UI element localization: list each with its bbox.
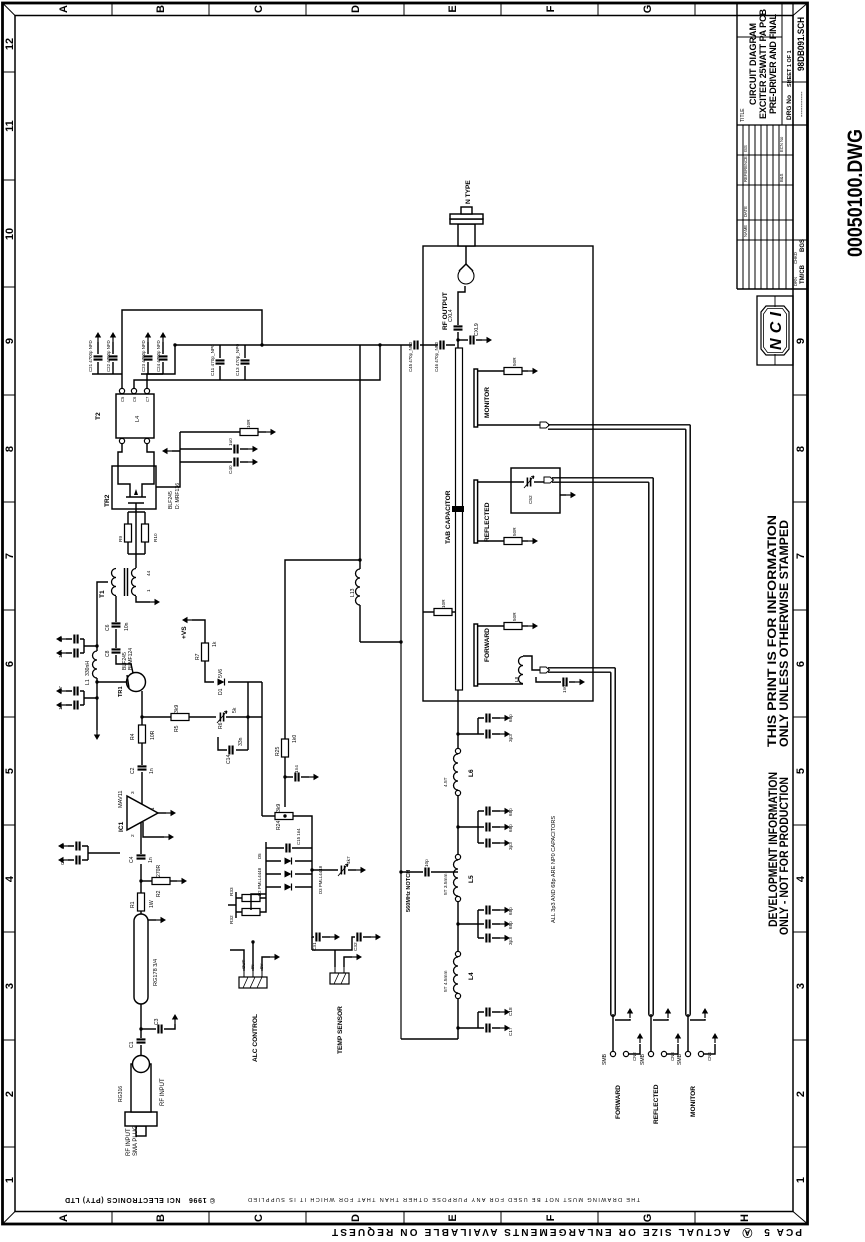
feedthrough caps C23 C24 4700p NFD (141, 342, 163, 374)
wire L6 into box (457, 690, 459, 748)
diode D5 PMLL4448 (266, 860, 312, 862)
svg-text:MONITOR: MONITOR (484, 387, 491, 418)
svg-text:270R: 270R (156, 865, 162, 877)
bias rail y262 (248, 682, 262, 816)
svg-text:3p3: 3p3 (508, 842, 513, 850)
title area dividers (737, 3, 807, 125)
svg-text:DRN: DRN (793, 277, 798, 286)
capacitor CXL4 (454, 326, 463, 329)
shunt caps C27 C28 C29 (456, 922, 459, 925)
svg-text:1k0: 1k0 (292, 735, 298, 743)
corner diagonal top-right (4, 4, 16, 16)
supply rail with arrow (96, 723, 98, 725)
node junctions on x897 (260, 343, 263, 346)
svg-text:10R: 10R (150, 730, 156, 740)
svg-text:ONLY - NOT FOR PRODUCTION: ONLY - NOT FOR PRODUCTION (777, 777, 791, 935)
node L5 pad (455, 896, 460, 901)
svg-text:2: 2 (4, 1091, 16, 1097)
svg-text:4u7: 4u7 (58, 686, 63, 694)
svg-text:68p: 68p (508, 808, 513, 816)
svg-text:C15 1n4: C15 1n4 (296, 828, 301, 845)
grid numbers top (4, 38, 16, 1183)
ALC wires (230, 942, 270, 971)
revision table column lines (737, 155, 807, 240)
svg-text:4: 4 (4, 875, 16, 882)
svg-text:CN3: CN3 (670, 1052, 675, 1061)
svg-text:C21 4700p NFD: C21 4700p NFD (88, 340, 93, 372)
svg-text:EXCITER 25WATT PA PCB: EXCITER 25WATT PA PCB (758, 9, 768, 120)
svg-text:F: F (545, 1214, 557, 1221)
svg-text:NAME: NAME (743, 225, 748, 237)
svg-text:9: 9 (4, 338, 16, 344)
svg-text:1n: 1n (148, 857, 154, 863)
capacitor C4 (137, 855, 146, 858)
svg-text:R10: R10 (153, 533, 158, 542)
svg-text:8: 8 (795, 446, 807, 452)
ground at R2 (177, 878, 187, 884)
TR2 bias rail (156, 432, 240, 487)
capacitor C40 (234, 458, 237, 467)
svg-text:R25: R25 (275, 746, 281, 756)
svg-text:R2: R2 (156, 890, 162, 897)
svg-text:B: B (155, 5, 167, 13)
resistor R25 (284, 757, 286, 807)
svg-text:FORWARD: FORWARD (484, 628, 491, 662)
tab capacitor blob (452, 506, 464, 512)
svg-text:REFERENCE: REFERENCE (743, 156, 748, 182)
amplifier IC1 MAV11 (127, 796, 158, 830)
capacitor C16 (283, 775, 286, 778)
svg-text:R1: R1 (130, 901, 136, 908)
diode D2 PMLL4448 (266, 886, 312, 888)
svg-text:C45 470p_NP0: C45 470p_NP0 (408, 341, 413, 372)
svg-text:C40: C40 (228, 465, 233, 474)
capacitor C1 (137, 1039, 146, 1042)
svg-text:330nH: 330nH (85, 661, 91, 676)
svg-text:L8: L8 (514, 676, 519, 682)
svg-text:TR1: TR1 (118, 686, 124, 697)
transistor TR1 (127, 673, 146, 692)
svg-text:3k9: 3k9 (276, 804, 282, 812)
svg-text:3: 3 (4, 983, 16, 989)
wire TR1 drain up to supply rail (97, 681, 127, 683)
wire C1 to coax (140, 1004, 142, 1038)
svg-text:68p: 68p (508, 824, 513, 832)
capacitor C41 (234, 445, 237, 454)
svg-text:44: 44 (146, 570, 151, 576)
notch filter C26 560MHz (399, 870, 402, 873)
svg-text:C6: C6 (132, 396, 137, 402)
svg-text:C: C (253, 1214, 265, 1222)
svg-text:C32: C32 (353, 942, 358, 951)
svg-text:L4: L4 (135, 416, 141, 422)
svg-text:R5: R5 (174, 725, 180, 732)
wire L5 to L6 (457, 795, 459, 854)
ground at coax braid (148, 919, 156, 921)
svg-text:SMB: SMB (640, 1053, 646, 1065)
wire R7 to D1 (205, 661, 214, 682)
svg-text:7: 7 (795, 553, 807, 559)
capacitor C15 (266, 847, 312, 849)
wire C4 to IC1 (140, 822, 142, 854)
bias rail y248 (248, 682, 262, 750)
svg-text:4: 4 (795, 875, 807, 882)
svg-text:3: 3 (795, 983, 807, 989)
svg-text:B: B (155, 1214, 167, 1222)
return wire y401 (400, 345, 402, 1039)
svg-text:C52: C52 (528, 495, 533, 504)
grid ticks top band (3, 72, 16, 1147)
svg-text:11: 11 (4, 120, 16, 132)
svg-text:68p: 68p (508, 714, 513, 722)
svg-text:5T 3.5mm: 5T 3.5mm (443, 873, 449, 895)
svg-text:33n: 33n (238, 737, 244, 746)
revision table row lines (743, 125, 786, 289)
svg-text:1n4: 1n4 (294, 765, 299, 773)
svg-text:7: 7 (4, 553, 16, 559)
svg-text:C8: C8 (105, 650, 111, 657)
grid numbers bottom (795, 338, 807, 1183)
svg-text:REFLECTED: REFLECTED (484, 502, 491, 542)
wire T2 pin2 to rail x862 (134, 345, 380, 388)
corner diagonal top-left (4, 1212, 16, 1224)
transistor TR2 (112, 466, 156, 509)
inductor L8 (478, 683, 523, 685)
decoupling caps C12 C13 (95, 696, 98, 699)
wire J1 to C1 (140, 1045, 142, 1056)
capacitor C32 (312, 937, 355, 950)
svg-text:CN4: CN4 (707, 1052, 712, 1061)
monitor exit coax (548, 425, 690, 1014)
node R5 (140, 715, 143, 718)
inductor L13 (360, 345, 401, 642)
wire R4 to TR1 (141, 691, 143, 725)
svg-text:D: D (350, 5, 362, 13)
grid ticks right band (112, 3, 695, 16)
wire R25 to detector rail (285, 560, 360, 739)
svg-text:50R: 50R (512, 612, 517, 621)
svg-text:R32: R32 (229, 915, 234, 924)
grid ticks bottom band (793, 395, 807, 1147)
svg-text:C13 470p_NP0: C13 470p_NP0 (235, 344, 240, 376)
resistor R5 (142, 716, 171, 718)
forward SMB connector (612, 1014, 614, 1051)
capacitor C8 (112, 649, 121, 652)
resistor R4 (139, 725, 146, 743)
svg-text:MAV11: MAV11 (118, 790, 124, 808)
svg-text:C7: C7 (145, 396, 150, 402)
svg-text:1n0: 1n0 (562, 685, 567, 693)
wire C2 to R4 (141, 743, 143, 765)
output ball (458, 268, 474, 284)
svg-text:B&S: B&S (779, 173, 784, 182)
svg-text:D2 PMLL4448: D2 PMLL4448 (257, 867, 262, 896)
wire L4 to L5 (457, 901, 459, 951)
inductor L6 (454, 754, 459, 790)
svg-text:RG316: RG316 (118, 1086, 124, 1102)
svg-text:TR2: TR2 (104, 494, 111, 507)
capacitor C6 (112, 623, 121, 626)
connector J1 RF INPUT SMA PLUG (125, 1056, 157, 1137)
coax W1 RG178 (134, 914, 148, 1004)
svg-text:1u0: 1u0 (228, 438, 233, 446)
grid letters right (58, 5, 654, 14)
svg-text:L13: L13 (350, 588, 356, 597)
svg-text:TITLE: TITLE (740, 108, 746, 122)
wire CXL4 to output ball (458, 286, 465, 325)
ground at IC1 pin4 (143, 822, 164, 837)
svg-text:L4: L4 (468, 972, 475, 980)
svg-text:C3: C3 (154, 1018, 160, 1025)
svg-text:DATE: DATE (743, 206, 748, 217)
svg-text:C22 4700p NFD: C22 4700p NFD (106, 340, 111, 372)
svg-text:00050100.DWG: 00050100.DWG (844, 129, 865, 257)
svg-text:ONLY UNLESS OTHERWISE STAMPED: ONLY UNLESS OTHERWISE STAMPED (777, 520, 791, 747)
svg-text:D: D (350, 1214, 362, 1222)
connector CN1 ALC (239, 971, 267, 988)
shunt caps C17 C18 (456, 1026, 459, 1029)
capacitor C31 (312, 894, 314, 937)
shunt caps C37 C38 (456, 732, 459, 735)
svg-text:SMB: SMB (602, 1053, 608, 1065)
svg-text:5V6: 5V6 (218, 669, 224, 678)
svg-text:L5: L5 (468, 875, 475, 883)
forward exit coax (548, 668, 615, 1014)
svg-text:50R: 50R (512, 527, 517, 536)
svg-text:-----------: ----------- (799, 91, 806, 117)
svg-text:TEMP SENSOR: TEMP SENSOR (337, 1006, 344, 1054)
svg-text:1: 1 (146, 589, 151, 592)
temp sensor wires (335, 950, 352, 967)
node L4 pad (455, 993, 460, 998)
inductor L1 (96, 678, 98, 730)
trimmer C52 (524, 476, 534, 488)
wire C8 to C6 (115, 629, 117, 648)
svg-text:10R: 10R (246, 419, 251, 428)
svg-text:SMB: SMB (677, 1053, 683, 1065)
connector J2 N TYPE (450, 207, 483, 246)
ground at IC1 pin1 (158, 812, 166, 814)
forward termination resistor (478, 625, 504, 627)
svg-text:3: 3 (130, 791, 135, 794)
resistors R32 R33 (228, 892, 242, 918)
svg-text:N TYPE: N TYPE (465, 180, 472, 204)
svg-text:C23 4700p NFD: C23 4700p NFD (141, 340, 146, 372)
capacitor C3 (141, 1028, 156, 1030)
svg-text:PRE-DRIVER AND FINAL: PRE-DRIVER AND FINAL (768, 14, 778, 115)
svg-text:3p3: 3p3 (508, 734, 513, 742)
svg-text:BGS: BGS (800, 239, 806, 252)
node R2 (139, 879, 142, 882)
svg-text:C1: C1 (129, 1041, 135, 1048)
svg-text:F: F (545, 5, 557, 12)
svg-text:1u: 1u (58, 636, 63, 642)
capacitor C2 (138, 766, 147, 769)
svg-text:© 1996 NCI ELECTRONICS (PTY): © 1996 NCI ELECTRONICS (PTY) LTD (65, 1196, 215, 1204)
svg-text:1: 1 (150, 807, 155, 810)
wire rails to R24 (251, 816, 312, 910)
supply arrow (182, 617, 192, 623)
svg-text:C: C (253, 5, 265, 13)
svg-text:CIRCUIT DIAGRAM: CIRCUIT DIAGRAM (748, 23, 758, 105)
svg-text:1n: 1n (149, 768, 155, 774)
resistor R9 (125, 524, 132, 542)
svg-text:R9: R9 (118, 536, 123, 542)
wire coax to R1 (140, 911, 142, 914)
resistor R10 (142, 524, 149, 542)
svg-text:+VS: +VS (181, 626, 188, 639)
NCI logo box (757, 296, 793, 365)
svg-text:1k: 1k (212, 641, 218, 647)
svg-text:68p: 68p (508, 907, 513, 915)
connector CN5 temp sensor (330, 967, 349, 984)
svg-text:FORWARD: FORWARD (615, 1085, 622, 1119)
svg-text:1: 1 (795, 1177, 807, 1183)
svg-text:R24: R24 (276, 820, 282, 830)
svg-text:C14: C14 (226, 754, 232, 764)
svg-text:A: A (58, 1214, 70, 1222)
svg-text:A: A (58, 5, 70, 13)
node C3 branch (139, 1027, 142, 1030)
svg-text:ECN No: ECN No (779, 136, 784, 152)
svg-text:SMA PLUG: SMA PLUG (133, 1125, 139, 1156)
svg-text:G: G (642, 1214, 654, 1223)
svg-text:10p: 10p (424, 859, 429, 867)
svg-text:ISS: ISS (743, 145, 748, 152)
monitor SMB connector (687, 1014, 689, 1051)
svg-text:L6: L6 (468, 769, 475, 777)
svg-text:C9: C9 (60, 859, 65, 865)
svg-text:68p: 68p (508, 921, 513, 929)
svg-text:ALC CONTROL: ALC CONTROL (252, 1014, 259, 1062)
svg-text:TM/CB: TM/CB (800, 264, 806, 284)
svg-text:C5: C5 (120, 396, 125, 402)
svg-text:C6: C6 (105, 624, 111, 631)
svg-text:3p3: 3p3 (508, 937, 513, 945)
monitor hop (478, 424, 540, 426)
shunt caps C33 C34 C35 (456, 825, 459, 828)
grid ticks left band (112, 1212, 695, 1225)
reflected exit coax (552, 478, 653, 1014)
svg-text:IC1: IC1 (118, 821, 125, 832)
svg-text:6: 6 (795, 661, 807, 667)
capacitor C42 at forward port (536, 677, 561, 682)
ground at C3 (172, 1014, 178, 1024)
forward coupled stub (474, 624, 478, 686)
inductor L4 (454, 957, 459, 993)
svg-text:RG178 3/4: RG178 3/4 (153, 959, 159, 986)
wire ball to N connector (465, 246, 467, 264)
feedthrough caps C21 C22 4700p NFD (92, 342, 122, 374)
svg-text:THE DRAWING MUST NOT BE USED F: THE DRAWING MUST NOT BE USED FOR ANY PUR… (248, 1196, 640, 1202)
inductor L5 (454, 860, 459, 896)
svg-text:RF OUTPUT: RF OUTPUT (442, 292, 449, 330)
svg-text:REFLECTED: REFLECTED (653, 1084, 660, 1124)
svg-text:4k7: 4k7 (346, 856, 351, 864)
svg-text:10n: 10n (124, 622, 130, 631)
svg-text:5: 5 (795, 768, 807, 774)
capacitors C45 C46 470p into box (401, 344, 455, 346)
wire +VS to R7 (192, 620, 205, 643)
resistor R2 shunt (141, 880, 152, 882)
svg-text:C24 4700p NFD: C24 4700p NFD (156, 340, 161, 372)
svg-text:CHKD: CHKD (793, 252, 798, 264)
svg-text:12: 12 (4, 38, 16, 50)
transformer T2 (116, 394, 154, 438)
svg-text:CN2: CN2 (632, 1052, 637, 1061)
wire T2 pin1 to rail x932 (122, 310, 262, 388)
svg-text:9: 9 (795, 338, 807, 344)
svg-text:C4: C4 (129, 856, 135, 863)
svg-text:R7: R7 (195, 653, 201, 660)
resistor R7 (202, 643, 209, 661)
svg-text:H: H (739, 1214, 751, 1222)
coupler main line (456, 348, 463, 690)
svg-text:C2: C2 (130, 767, 136, 774)
NCI logo octagon (761, 306, 789, 355)
wire TR1 to C8 (116, 655, 133, 673)
svg-text:98DB091.SCH: 98DB091.SCH (796, 17, 807, 71)
svg-text:BLF245: BLF245 (168, 491, 174, 509)
svg-text:2: 2 (130, 834, 135, 837)
reflected coupled stub (474, 480, 478, 543)
resistor R12 (240, 429, 258, 436)
svg-text:10: 10 (4, 228, 16, 240)
ground at T1 secondary (136, 596, 150, 602)
wire C6 to T1 (115, 596, 117, 622)
capacitor C14 (236, 749, 248, 751)
decoupling caps C19 C20 (95, 644, 98, 647)
svg-text:R33: R33 (229, 887, 234, 896)
forward hop (540, 667, 550, 673)
svg-text:R4: R4 (130, 733, 136, 740)
svg-text:DRG No: DRG No (786, 95, 793, 120)
decoupling caps C9 C10 (88, 846, 120, 860)
svg-text:E: E (447, 5, 459, 12)
svg-text:D5: D5 (257, 853, 262, 859)
grid letters left (58, 1214, 751, 1223)
resistor R1 (138, 893, 145, 911)
reflected SMB connector (650, 1014, 652, 1051)
svg-text:2: 2 (795, 1091, 807, 1097)
svg-text:3k9: 3k9 (174, 705, 180, 713)
zener D1 (218, 679, 225, 686)
svg-text:5k: 5k (232, 707, 238, 713)
wire drop to filter (401, 1038, 458, 1040)
svg-text:SHEET 1 OF 1: SHEET 1 OF 1 (787, 50, 793, 87)
svg-text:6: 6 (4, 661, 16, 667)
T2 pin circles (119, 438, 124, 443)
wire TR2 source to T2 (147, 441, 154, 484)
svg-text:L1: L1 (85, 679, 91, 685)
svg-text:G: G (642, 5, 654, 14)
svg-text:C11 470p_NP0: C11 470p_NP0 (210, 344, 215, 376)
trimmer RV2 (312, 869, 338, 871)
svg-text:MONITOR: MONITOR (690, 1086, 697, 1117)
capacitor CXL9 stub (456, 338, 459, 341)
svg-text:10n: 10n (58, 650, 63, 658)
wire T2 pin3 to main output drop x897 (147, 345, 401, 388)
svg-text:5T 4.5mm: 5T 4.5mm (443, 970, 449, 992)
svg-text:RF INPUT: RF INPUT (126, 1128, 132, 1156)
diode cluster rails (266, 842, 312, 894)
reflected trim box (511, 468, 560, 513)
reflected termination resistor (478, 540, 504, 542)
svg-text:4.5T: 4.5T (443, 777, 449, 787)
wire coupler to CXL4 (457, 332, 459, 348)
svg-text:10R: 10R (441, 599, 446, 608)
svg-text:D1: D1 (218, 688, 224, 695)
